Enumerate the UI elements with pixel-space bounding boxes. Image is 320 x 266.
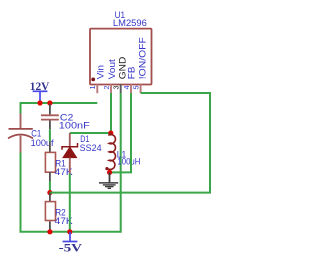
svg-text:3: 3: [112, 86, 121, 90]
svg-text:4: 4: [122, 86, 131, 90]
pin 1 stub: [96, 84, 98, 93]
inductor L1 lead end blob: [105, 167, 108, 170]
pin 4 stub: [130, 84, 132, 93]
junction dot R2 on -5V rail: [47, 229, 52, 234]
resistor R1 bottom pin: [49, 172, 51, 181]
ground bar 3: [105, 186, 114, 188]
junction dot Vout node: [108, 130, 113, 135]
diode D1 schottky cathode bar: [62, 143, 78, 150]
pin 1 marker dot inside U1: [91, 78, 95, 82]
svg-text:100uH: 100uH: [117, 156, 140, 167]
ground bar 4 tip: [108, 187, 111, 189]
wire divider node to ON/OFF (right rail): [50, 93, 210, 193]
wire C2 bottom to R1 top: [49, 129, 51, 141]
svg-text:100nF: 100nF: [59, 121, 90, 132]
node 12V label underline: [33, 90, 48, 92]
capacitor C2 bottom plate: [41, 119, 59, 121]
ground bar 1: [99, 182, 118, 184]
node -5V label underline: [63, 241, 78, 243]
svg-text:!ON/OFF: !ON/OFF: [137, 37, 148, 79]
junction dot divider node: [47, 190, 52, 195]
pin 3 stub: [120, 84, 122, 93]
resistor R2 top pin: [49, 193, 51, 202]
svg-text:SS24: SS24: [80, 143, 102, 154]
capacitor C2 top plate: [41, 114, 59, 116]
capacitor C1 top plate: [9, 128, 33, 130]
ground bar 2: [103, 184, 116, 186]
svg-text:FB: FB: [126, 67, 137, 80]
resistor R1 top pin: [49, 142, 51, 153]
junction dot C2 top: [47, 100, 52, 105]
svg-text:2: 2: [102, 86, 111, 90]
capacitor C2 bottom pin: [49, 121, 51, 130]
wire R2 bottom to -5V rail: [49, 230, 51, 232]
diode D1 triangle: [63, 147, 77, 157]
diode D1 anode pin: [69, 158, 71, 174]
node -5V label stem: [69, 232, 71, 242]
IC U1 LM2596 body: [90, 29, 152, 85]
ground stem: [109, 172, 111, 182]
svg-text:12V: 12V: [30, 81, 50, 93]
wire D1 cathode branch: [70, 132, 111, 134]
pin 5 stub: [140, 84, 142, 93]
wire R1 bottom to divider node: [49, 181, 51, 193]
wire FB (pin4) to L1 bottom node: [110, 93, 131, 172]
junction dot D1 anode on -5V rail: [67, 229, 72, 234]
junction dot 12V label: [37, 100, 42, 105]
svg-text:LM2596: LM2596: [113, 18, 147, 29]
wire C1 to -5V rail: [21, 93, 121, 232]
svg-text:Vin: Vin: [95, 65, 106, 79]
diode D1 cathode pin: [69, 133, 71, 147]
svg-text:5: 5: [132, 86, 141, 90]
capacitor C2 top pin: [49, 104, 51, 114]
wire Vout node (pin2 down to L1 top): [110, 93, 112, 133]
capacitor C1 bottom curved plate: [8, 135, 33, 139]
resistor R2 bottom pin: [49, 221, 51, 230]
resistor R2 body: [45, 202, 55, 221]
junction dot L1 bottom / ground node: [107, 170, 112, 175]
capacitor C1 top pin: [20, 114, 22, 129]
pin 2 stub: [110, 84, 112, 93]
capacitor C1 bottom pin: [20, 136, 22, 153]
svg-text:Vout: Vout: [107, 59, 118, 79]
svg-text:1: 1: [88, 86, 97, 90]
inductor L1 coil: [108, 133, 116, 169]
svg-text:-5V: -5V: [59, 243, 83, 255]
wire 12V rail: [21, 103, 98, 114]
node 12V label stem: [39, 92, 41, 104]
wire D1 anode to -5V rail: [69, 174, 71, 232]
resistor R1 body: [45, 152, 55, 172]
